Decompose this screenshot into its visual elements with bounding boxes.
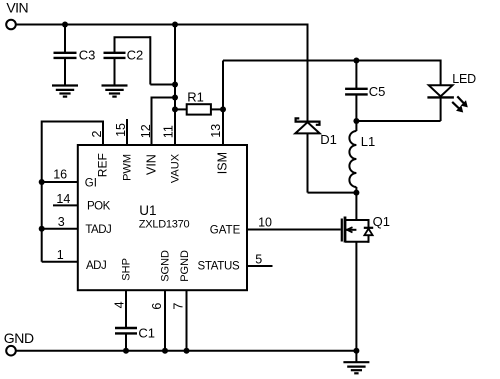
svg-text:11: 11 bbox=[162, 125, 176, 138]
svg-text:7: 7 bbox=[172, 303, 186, 310]
svg-text:16: 16 bbox=[53, 167, 67, 181]
svg-text:LED: LED bbox=[452, 72, 476, 86]
svg-text:PWM: PWM bbox=[122, 154, 134, 181]
svg-text:VIN: VIN bbox=[6, 0, 28, 16]
svg-text:R1: R1 bbox=[187, 90, 204, 105]
svg-text:C5: C5 bbox=[369, 84, 386, 99]
svg-text:ISM: ISM bbox=[216, 152, 230, 174]
svg-text:SGND: SGND bbox=[159, 250, 171, 282]
svg-text:C2: C2 bbox=[127, 47, 144, 62]
svg-text:U1: U1 bbox=[139, 203, 156, 218]
svg-text:VAUX: VAUX bbox=[170, 153, 182, 183]
svg-text:14: 14 bbox=[56, 192, 70, 206]
svg-text:SHP: SHP bbox=[120, 258, 132, 281]
svg-text:GI: GI bbox=[85, 177, 97, 189]
svg-text:VIN: VIN bbox=[145, 154, 159, 175]
svg-text:6: 6 bbox=[150, 303, 164, 310]
svg-text:ZXLD1370: ZXLD1370 bbox=[139, 218, 190, 230]
svg-text:C1: C1 bbox=[138, 325, 155, 340]
svg-text:REF: REF bbox=[96, 153, 110, 177]
svg-text:POK: POK bbox=[87, 201, 111, 213]
svg-text:D1: D1 bbox=[320, 132, 337, 147]
svg-text:Q1: Q1 bbox=[373, 214, 390, 229]
svg-text:C3: C3 bbox=[79, 47, 96, 62]
svg-text:1: 1 bbox=[57, 248, 64, 262]
svg-text:10: 10 bbox=[258, 216, 272, 230]
svg-text:PGND: PGND bbox=[179, 250, 191, 282]
svg-text:2: 2 bbox=[90, 131, 104, 138]
svg-text:4: 4 bbox=[112, 301, 126, 308]
svg-text:ADJ: ADJ bbox=[86, 260, 106, 272]
svg-text:L1: L1 bbox=[361, 134, 375, 149]
svg-text:15: 15 bbox=[114, 123, 128, 137]
svg-text:13: 13 bbox=[209, 124, 223, 138]
svg-text:12: 12 bbox=[139, 124, 153, 138]
svg-text:GND: GND bbox=[4, 330, 34, 346]
svg-text:5: 5 bbox=[255, 252, 262, 266]
svg-text:STATUS: STATUS bbox=[198, 261, 240, 273]
svg-text:GATE: GATE bbox=[210, 225, 241, 237]
svg-text:TADJ: TADJ bbox=[85, 224, 111, 236]
svg-text:3: 3 bbox=[58, 215, 65, 229]
